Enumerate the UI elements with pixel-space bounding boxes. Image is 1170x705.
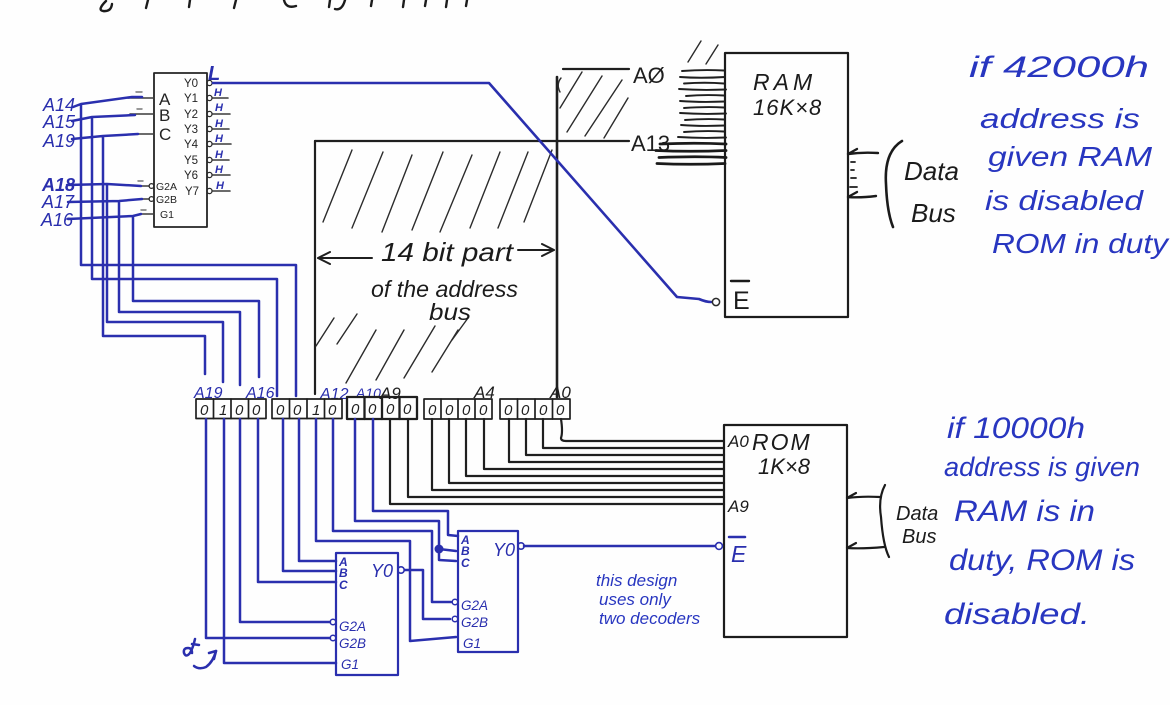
U4 pin labels G2A G2B G1 xyxy=(339,619,366,672)
cropped handwriting remnants at top edge xyxy=(101,0,467,11)
wire Y0 of U1 to RAM enable (blue diagonal) xyxy=(213,83,711,302)
svg-text:0: 0 xyxy=(328,402,337,419)
ROM data bus brace xyxy=(880,485,889,557)
svg-text:0: 0 xyxy=(462,402,471,419)
bit register group A7-A4 value 0000 xyxy=(424,399,492,419)
svg-text:0: 0 xyxy=(479,402,488,419)
U4 output bubble xyxy=(398,567,404,573)
svg-text:H: H xyxy=(215,133,224,145)
svg-text:16K×8: 16K×8 xyxy=(753,95,822,120)
svg-text:0: 0 xyxy=(200,402,209,419)
svg-text:ROM: ROM xyxy=(752,429,812,455)
svg-text:if 42000h: if 42000h xyxy=(969,51,1149,84)
svg-text:H: H xyxy=(215,164,224,176)
svg-text:given RAM: given RAM xyxy=(988,141,1153,172)
svg-text:Bus: Bus xyxy=(911,198,956,228)
svg-text:Data: Data xyxy=(904,156,959,186)
wire bit A12 to U5 G2A xyxy=(333,419,451,602)
RAM data bus tick dots xyxy=(850,162,857,187)
svg-text:RAM: RAM xyxy=(753,69,816,95)
svg-text:address is: address is xyxy=(980,103,1140,134)
hatching of 14-bit zone xyxy=(316,41,718,383)
bit register group A11-A8 value 0000 xyxy=(347,397,417,419)
svg-text:Data: Data xyxy=(896,503,938,525)
bit register group A19-A16 value 0100 xyxy=(196,399,266,419)
annotation: this design uses only two decoders xyxy=(596,571,701,628)
svg-text:0: 0 xyxy=(386,401,395,418)
wire A16 : label to pin G1 and down to bit A16 xyxy=(68,214,259,377)
svg-text:disabled.: disabled. xyxy=(944,598,1090,631)
svg-text:E: E xyxy=(731,541,747,567)
svg-text:Y5: Y5 xyxy=(184,155,198,167)
wire A14 : label to pin A and down to bit A14 xyxy=(73,97,296,396)
U4 pin labels A B C xyxy=(338,555,348,592)
svg-text:C: C xyxy=(159,125,171,144)
U1 enable input bubbles xyxy=(149,184,154,202)
svg-text:0: 0 xyxy=(293,402,302,419)
RAM Data Bus label xyxy=(904,156,959,228)
U5 enable bubbles xyxy=(452,599,458,605)
U5 output bubble xyxy=(518,543,524,549)
U1 input stub wires xyxy=(128,98,154,214)
U1 output labels Y0-Y7 xyxy=(184,78,199,198)
wire A13 horizontal xyxy=(315,140,629,142)
svg-text:0: 0 xyxy=(252,402,261,419)
svg-text:two decoders: two decoders xyxy=(599,609,701,628)
svg-text:G2B: G2B xyxy=(461,615,488,630)
svg-text:Y4: Y4 xyxy=(184,139,199,151)
wire bit A10 to U5 A xyxy=(373,419,458,536)
svg-text:1K×8: 1K×8 xyxy=(758,454,811,479)
decoder U4 (bottom-left, blue) body xyxy=(336,553,398,675)
wire U5 Y0 to ROM enable xyxy=(524,545,715,548)
ROM enable bubble xyxy=(716,543,723,550)
bit register group A3-A0 value 0000 xyxy=(500,399,570,419)
dimension arrow left xyxy=(318,252,372,264)
svg-text:H: H xyxy=(216,180,225,192)
svg-text:H: H xyxy=(214,87,223,99)
svg-text:if 10000h: if 10000h xyxy=(947,412,1085,445)
RAM address bundle scribble xyxy=(678,70,726,138)
svg-text:1: 1 xyxy=(219,402,227,419)
U1 small tick marks near input pins xyxy=(136,92,146,210)
wire A19 : label to pin C and down to bit A19 xyxy=(72,134,205,374)
svg-text:G2A: G2A xyxy=(339,619,366,634)
wire bit A16 to U4 C xyxy=(258,419,336,582)
svg-text:Y3: Y3 xyxy=(184,124,198,136)
svg-text:duty, ROM is: duty, ROM is xyxy=(949,544,1135,577)
svg-text:RAM is in: RAM is in xyxy=(954,495,1095,528)
blue H marks on Y1-Y7 outputs xyxy=(214,87,225,192)
svg-text:Y0: Y0 xyxy=(371,561,393,581)
svg-text:H: H xyxy=(215,102,224,114)
U1 pin labels A B C xyxy=(159,90,171,144)
svg-text:E: E xyxy=(733,287,750,315)
wire bit A17 to U4 G2A xyxy=(240,419,330,622)
RAM enable bubble xyxy=(712,298,719,305)
wire U4 Y0 to U5 G2B xyxy=(405,570,450,619)
ROM data bus lines with arrowheads xyxy=(847,493,884,548)
RAM label xyxy=(753,69,822,120)
ROM Data Bus label xyxy=(896,503,938,548)
svg-text:0: 0 xyxy=(235,402,244,419)
svg-text:Y6: Y6 xyxy=(184,170,198,182)
svg-text:G1: G1 xyxy=(341,657,359,672)
svg-text:Y7: Y7 xyxy=(185,186,199,198)
svg-text:0: 0 xyxy=(276,402,285,419)
svg-text:A0: A0 xyxy=(727,432,749,451)
wire bit A13 to U5 G1 xyxy=(316,419,456,641)
RAM data bus lines xyxy=(848,149,878,197)
svg-text:A19: A19 xyxy=(42,131,75,151)
annotation squiggle arrow near A19/A18 wires xyxy=(184,639,216,668)
annotation bottom-right: if 10000h address is given RAM is in duty ROM is disabled xyxy=(944,412,1140,631)
wire bit A15 to U4 B xyxy=(283,419,336,571)
svg-text:B: B xyxy=(159,106,170,125)
wire A17 : label to pin G2B and down to bit A17 xyxy=(68,199,240,385)
dimension arrow right xyxy=(518,244,554,256)
svg-text:0: 0 xyxy=(428,402,437,419)
ROM label xyxy=(752,429,812,479)
svg-text:G2B: G2B xyxy=(156,194,177,206)
svg-text:0: 0 xyxy=(403,401,412,418)
ROM U3 body xyxy=(724,425,847,637)
wire A15 : label to pin B and down to bit A15 xyxy=(72,115,277,396)
svg-text:H: H xyxy=(215,149,224,161)
RAM data bus brace xyxy=(886,141,902,227)
wire bit A19 to U4 G2B xyxy=(206,419,330,638)
svg-text:G1: G1 xyxy=(160,209,174,221)
node A0 boundary line (right vertical of hatched zone) xyxy=(556,77,559,397)
svg-text:G2A: G2A xyxy=(461,598,488,613)
svg-text:Y0: Y0 xyxy=(493,540,515,560)
svg-text:this design: this design xyxy=(596,571,677,590)
U4 enable bubbles xyxy=(330,619,336,625)
U1 pin labels G2A G2B G1 xyxy=(156,181,177,221)
U5 pin labels G2A G2B G1 xyxy=(461,598,488,651)
svg-text:A10: A10 xyxy=(355,385,381,401)
svg-text:A9: A9 xyxy=(727,497,749,516)
svg-text:0: 0 xyxy=(521,402,530,419)
RAM U2 body xyxy=(725,53,848,317)
wires bit A0-A9 to ROM address pins xyxy=(390,419,724,504)
U5 pin labels A B C xyxy=(460,533,470,570)
svg-text:0: 0 xyxy=(504,402,513,419)
svg-text:Y1: Y1 xyxy=(184,93,198,105)
svg-text:bus: bus xyxy=(429,299,472,325)
bit register group A15-A12 value 0010 xyxy=(272,399,342,419)
svg-text:G1: G1 xyxy=(463,636,481,651)
wire A18 : label to pin G2A and down to bit A18 xyxy=(67,184,223,382)
svg-text:AØ: AØ xyxy=(633,63,665,88)
svg-text:14 bit part: 14 bit part xyxy=(381,237,515,267)
U1 output stub wires xyxy=(212,98,231,191)
svg-text:uses only: uses only xyxy=(599,590,672,609)
U1 output bubbles xyxy=(207,80,212,193)
svg-text:G2B: G2B xyxy=(339,636,366,651)
svg-text:H: H xyxy=(215,118,224,130)
svg-text:address is given: address is given xyxy=(944,452,1140,482)
svg-text:0: 0 xyxy=(351,401,360,418)
wire bit A14 to U4 A xyxy=(299,419,336,561)
svg-text:A12: A12 xyxy=(319,386,349,403)
svg-text:C: C xyxy=(461,556,470,570)
svg-text:Y2: Y2 xyxy=(184,109,198,121)
annotation top-right: if 42000h address is given RAM is disabled ROM in duty xyxy=(969,51,1170,259)
svg-text:is disabled: is disabled xyxy=(985,185,1145,216)
svg-text:0: 0 xyxy=(368,401,377,418)
svg-text:0: 0 xyxy=(539,402,548,419)
svg-text:Bus: Bus xyxy=(902,526,936,548)
decoder U1 (74138 top) body xyxy=(154,73,207,227)
svg-text:0: 0 xyxy=(445,402,454,419)
wire bit A18 to U4 G1 xyxy=(224,419,336,663)
junction node on U5 B input xyxy=(435,545,444,554)
wire A0 horizontal xyxy=(563,68,629,70)
svg-text:G2A: G2A xyxy=(156,181,177,193)
annotation: 14 bit part of the address bus xyxy=(371,237,518,325)
decoder U5 (bottom-right, blue) body xyxy=(458,531,518,652)
svg-text:A15: A15 xyxy=(42,112,76,132)
wire bit A11 to U5 B and C xyxy=(355,419,456,561)
svg-text:ROM in duty: ROM in duty xyxy=(992,228,1170,259)
svg-text:0: 0 xyxy=(556,402,565,419)
bit values xyxy=(200,401,565,419)
svg-text:Y0: Y0 xyxy=(184,78,198,90)
svg-text:C: C xyxy=(339,578,348,592)
svg-text:1: 1 xyxy=(312,402,320,419)
node A13 boundary line (left vertical of hatched zone) xyxy=(314,141,316,394)
